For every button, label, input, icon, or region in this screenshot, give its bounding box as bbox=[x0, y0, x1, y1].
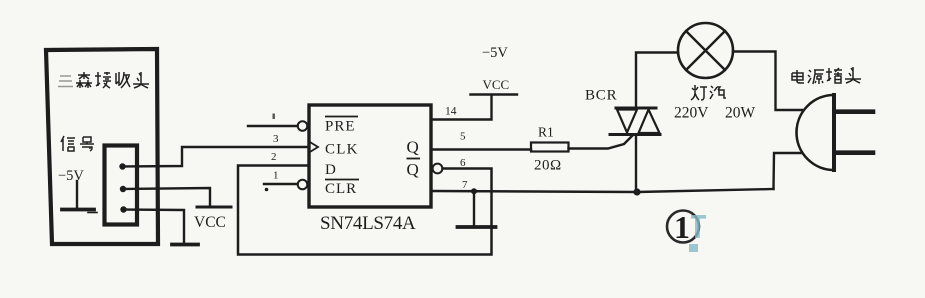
CLR stub dot bbox=[265, 188, 269, 192]
接 (jie) bbox=[95, 72, 111, 88]
lamp circle bbox=[678, 23, 733, 78]
泡 (pao) bbox=[710, 86, 726, 99]
connector J1 bbox=[105, 146, 138, 225]
plug prong upper bbox=[836, 109, 873, 114]
wire node to plug bottom bbox=[774, 153, 803, 189]
receiver box outer bbox=[46, 49, 158, 244]
wire lamp to plug top bbox=[733, 52, 802, 111]
resistor R1 body bbox=[531, 143, 569, 152]
头2 (tou) bbox=[845, 67, 861, 83]
wire pin1 to CLK bbox=[123, 147, 310, 167]
VCC rail bbox=[471, 93, 518, 95]
ground at pin7 junction bbox=[473, 192, 475, 226]
MT1 down to node bbox=[635, 136, 637, 192]
Qbar bubble bbox=[433, 164, 443, 174]
森 (sen) bbox=[76, 72, 92, 88]
源 (yuan) bbox=[808, 70, 824, 84]
wire pin2 to VCC bbox=[123, 188, 210, 207]
插 (cha) bbox=[826, 68, 842, 83]
junction dot triac MT1 node bbox=[633, 188, 640, 195]
D input line with feedback loop from Qbar bbox=[238, 166, 492, 255]
MT2 up to lamp bbox=[636, 53, 678, 107]
pin dot 3 bbox=[120, 206, 126, 212]
cyan watermark marks bbox=[689, 215, 706, 252]
pin number 4 tick bbox=[273, 114, 275, 120]
CLR pin line bbox=[264, 183, 298, 185]
灯 (deng) bbox=[691, 85, 707, 100]
PRE pin line bbox=[248, 125, 298, 127]
CLK wedge bbox=[309, 142, 318, 153]
junction dot pin7 ground bbox=[471, 188, 477, 194]
电 (dian) bbox=[792, 70, 804, 83]
Q output line pin5 bbox=[431, 148, 531, 150]
plug arc bbox=[797, 95, 835, 170]
pin dot 1 bbox=[119, 163, 125, 169]
plug prong lower bbox=[836, 150, 873, 155]
VCC bar bbox=[197, 206, 231, 209]
ground bar under pin3 bbox=[172, 243, 198, 247]
pin dot 2 bbox=[120, 186, 126, 192]
annotation circle 1 bbox=[667, 211, 699, 243]
头 (tou) bbox=[133, 72, 149, 88]
收 (shou) bbox=[116, 72, 130, 88]
wire pin3 to ground bbox=[124, 210, 185, 244]
PRE bubble bbox=[298, 121, 308, 131]
pin14 wire to VCC rail bbox=[431, 95, 492, 120]
wire R1 to gate bbox=[569, 135, 634, 149]
ground under -5V bbox=[76, 181, 78, 208]
lamp cross bbox=[686, 31, 725, 70]
信 (xin) bbox=[61, 136, 75, 151]
号 (hao) bbox=[80, 137, 94, 151]
triac BCR bbox=[616, 107, 656, 110]
pin7 ground line (common) bbox=[431, 189, 774, 192]
三 (san) faint bbox=[58, 76, 73, 87]
IC U1 box bbox=[309, 105, 431, 207]
plug body flat edge bbox=[832, 95, 836, 170]
CLR bubble bbox=[298, 180, 308, 190]
